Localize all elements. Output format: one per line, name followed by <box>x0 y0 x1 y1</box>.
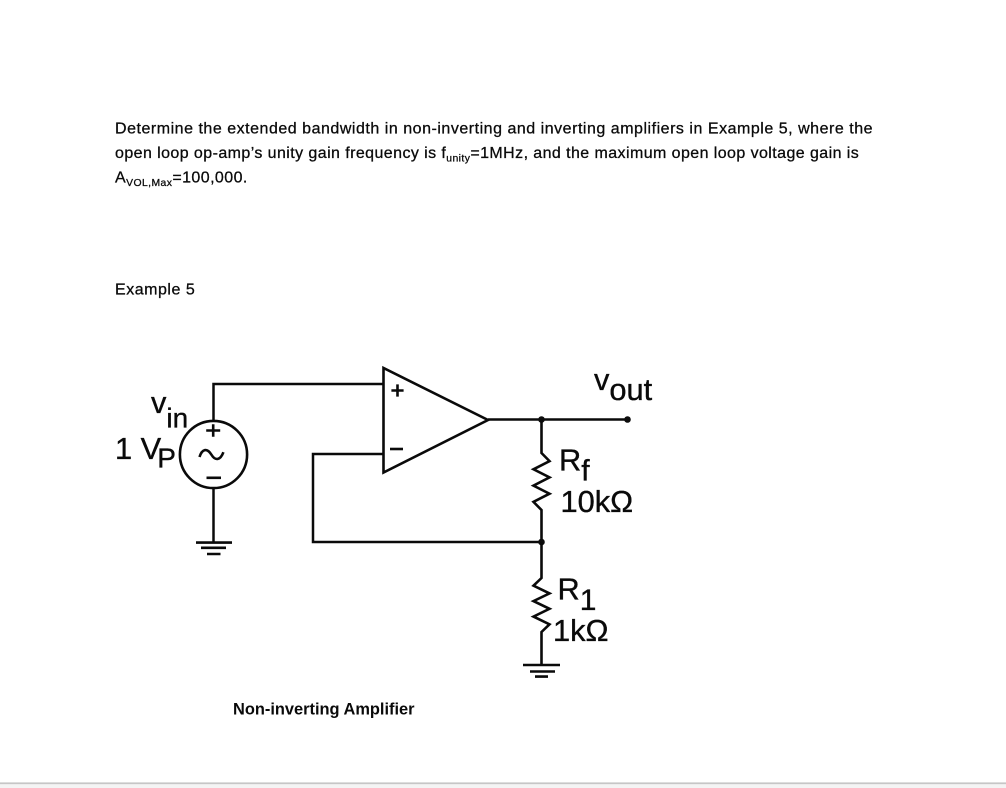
svg-text:R1: R1 <box>558 572 597 618</box>
source sine symbol <box>200 450 224 459</box>
wire source bottom to ground <box>212 488 215 543</box>
svg-text:vin: vin <box>151 385 188 433</box>
ground (source) <box>196 543 232 554</box>
svg-text:1 VP: 1 VP <box>115 431 176 474</box>
ground (R1) <box>523 665 560 677</box>
svg-text:Determine the extended bandwid: Determine the extended bandwidth in non-… <box>115 121 873 138</box>
op-amp plus input marking <box>391 384 403 396</box>
node B junction dot (Rf / R1 / feedback) <box>538 539 545 546</box>
svg-text:Non-inverting Amplifier: Non-inverting Amplifier <box>233 701 415 719</box>
svg-text:AVOL,Max=100,000.: AVOL,Max=100,000. <box>115 170 248 190</box>
svg-text:Example 5: Example 5 <box>115 282 195 299</box>
resistor Rf <box>534 420 550 543</box>
node A junction dot (output / Rf) <box>538 416 545 423</box>
svg-text:10kΩ: 10kΩ <box>561 484 634 519</box>
op-amp minus input marking <box>390 448 403 451</box>
svg-text:1kΩ: 1kΩ <box>553 613 609 648</box>
svg-text:vout: vout <box>594 362 653 407</box>
wire op-amp output to vout terminal <box>488 418 628 421</box>
vout terminal dot <box>624 416 631 423</box>
svg-text:Rf: Rf <box>559 443 590 488</box>
source minus sign <box>207 476 222 479</box>
resistor R1 <box>534 542 550 665</box>
source plus sign <box>206 424 220 437</box>
source V1 circle <box>180 421 247 488</box>
op-amp U1 triangle <box>384 368 489 473</box>
wire feedback from inverting input down and right to node B <box>313 454 542 542</box>
bottom divider line <box>0 782 1006 784</box>
wire from source top to op-amp noninverting input <box>214 384 384 421</box>
svg-text:open loop op-amp’s unity gain: open loop op-amp’s unity gain frequency … <box>115 145 859 165</box>
